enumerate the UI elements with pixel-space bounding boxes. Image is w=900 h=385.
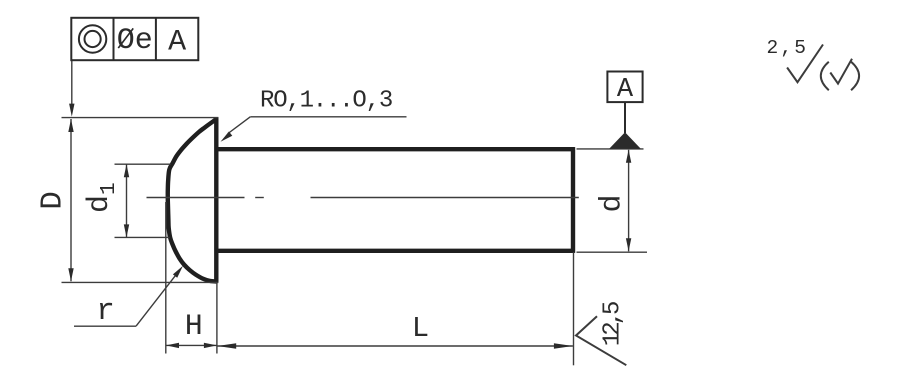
svg-text:H: H	[185, 310, 203, 344]
svg-text:r: r	[96, 294, 115, 329]
svg-text:A: A	[168, 26, 186, 60]
svg-text:L: L	[412, 312, 429, 345]
svg-text:A: A	[617, 75, 634, 105]
svg-text:12,5: 12,5	[600, 302, 627, 346]
svg-text:Øe: Øe	[117, 24, 153, 58]
svg-text:D: D	[35, 191, 70, 210]
svg-text:2,5: 2,5	[767, 37, 809, 59]
svg-text:d: d	[596, 194, 630, 212]
svg-text:RO,1...O,3: RO,1...O,3	[260, 88, 392, 115]
